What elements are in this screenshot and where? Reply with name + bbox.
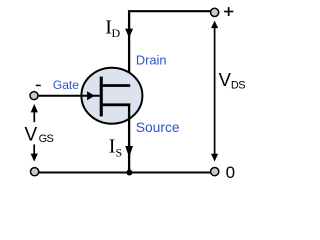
svg-text:I: I: [109, 136, 116, 158]
wire source vertical: [128, 104, 130, 174]
wire gate horizontal: [38, 95, 100, 97]
Q1 gate arrowhead (pointing right): [87, 91, 95, 100]
svg-text:DS: DS: [231, 80, 245, 92]
svg-text:V: V: [219, 69, 232, 90]
svg-text:Gate: Gate: [53, 78, 79, 92]
Q1 source lead: [101, 103, 131, 106]
transistor Q1 body: [81, 68, 142, 124]
svg-text:GS: GS: [39, 133, 54, 145]
label plus polarity: [224, 7, 233, 16]
terminal bottom-right 0: [211, 168, 219, 176]
Q1 channel bar: [100, 77, 103, 117]
label VDS: [219, 69, 246, 92]
svg-text:V: V: [25, 124, 38, 145]
svg-text:Drain: Drain: [136, 52, 167, 67]
wire top horizontal (drain to + terminal): [128, 10, 211, 12]
wire drain vertical: [128, 10, 130, 86]
arrow VGS upper (pointing up at gate terminal): [31, 104, 38, 122]
wire bottom horizontal: [39, 171, 211, 173]
svg-text:Source: Source: [136, 120, 180, 135]
label ID: [105, 16, 120, 40]
arrow IS (source current, pointing down): [125, 146, 133, 157]
svg-text:D: D: [112, 26, 121, 40]
label IS: [109, 136, 122, 160]
Q1 drain lead: [101, 84, 131, 87]
svg-text:S: S: [116, 145, 123, 159]
terminal top-right +: [211, 8, 219, 16]
label VGS: [25, 124, 54, 145]
label minus polarity: [36, 85, 41, 87]
arrow VGS lower (pointing down at bottom terminal): [31, 144, 38, 161]
arrow ID (drain current, pointing down): [125, 29, 133, 38]
svg-text:0: 0: [226, 163, 235, 182]
junction node (source to bottom rail): [126, 170, 132, 176]
terminal gate (gray): [30, 92, 38, 100]
terminal bottom-left (gray): [30, 168, 38, 176]
arrow VDS (double headed vertical): [211, 21, 218, 162]
